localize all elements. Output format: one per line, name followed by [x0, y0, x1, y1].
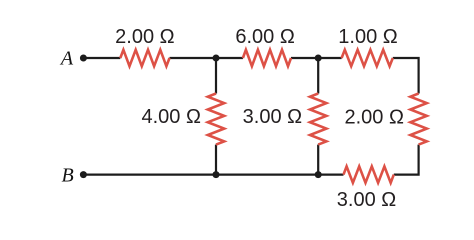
svg-text:2.00 Ω: 2.00 Ω — [344, 107, 403, 129]
wire: node D down to R5 — [317, 58, 319, 94]
wire: R1 to node C — [170, 57, 243, 59]
resistor 1.00 ohm (top right, horizontal) — [342, 50, 393, 66]
svg-text:3.00 Ω: 3.00 Ω — [337, 189, 396, 211]
svg-text:4.00 Ω: 4.00 Ω — [141, 106, 200, 128]
wire: R3 to top-right corner and down to R6 — [393, 58, 419, 94]
junction dot: top node C — [213, 55, 220, 62]
resistor 3.00 ohm (vertical at second junction) — [310, 94, 326, 145]
wire: R6 bottom to bottom-right corner to R7 — [394, 145, 419, 175]
junction dot: bottom node E — [213, 171, 220, 178]
junction dot: top node D — [315, 55, 322, 62]
wire: B to node F (bottom run) — [83, 174, 343, 176]
junction dot: bottom node F — [315, 171, 322, 178]
svg-text:B: B — [61, 164, 73, 186]
wire: node C down to R4 — [215, 58, 217, 94]
resistor 3.00 ohm (bottom right, horizontal) — [344, 166, 394, 182]
wire: R5 bottom to node F — [317, 145, 319, 175]
svg-text:A: A — [59, 48, 74, 70]
resistor 2.00 ohm (vertical, right branch) — [410, 94, 426, 145]
svg-text:2.00 Ω: 2.00 Ω — [115, 26, 174, 48]
node B terminal dot — [80, 171, 87, 178]
wire: R2 to node D — [291, 57, 342, 59]
svg-text:1.00 Ω: 1.00 Ω — [338, 26, 397, 48]
resistor 4.00 ohm (vertical at first junction) — [208, 94, 224, 145]
wire: A to R1 — [83, 57, 120, 59]
node A terminal dot — [80, 55, 87, 62]
resistor 6.00 ohm (top middle, horizontal) — [243, 50, 291, 66]
svg-text:6.00 Ω: 6.00 Ω — [235, 26, 294, 48]
resistor 2.00 ohm (top left, horizontal) — [120, 50, 169, 66]
svg-text:3.00 Ω: 3.00 Ω — [243, 106, 302, 128]
wire: R4 bottom to node E — [215, 145, 217, 175]
